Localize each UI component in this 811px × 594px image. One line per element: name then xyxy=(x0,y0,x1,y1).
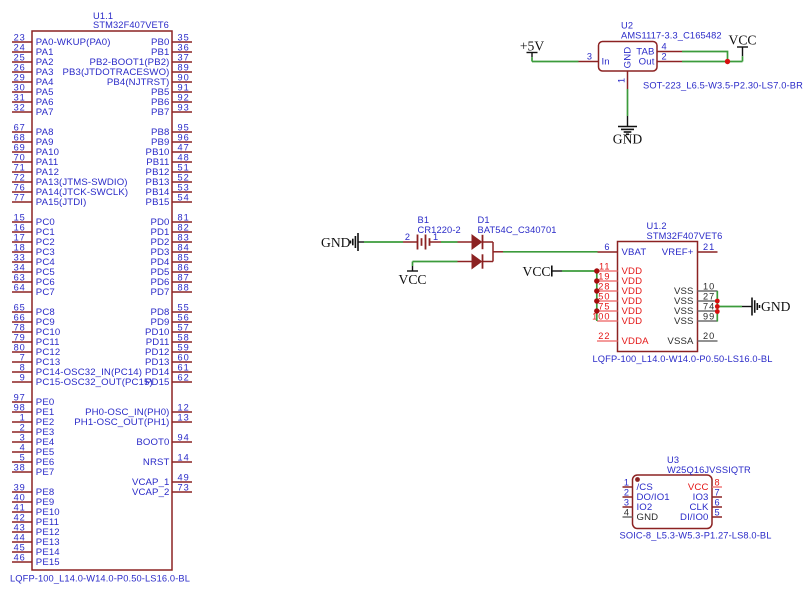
svg-text:52: 52 xyxy=(178,173,190,183)
svg-text:5: 5 xyxy=(20,453,26,463)
svg-text:23: 23 xyxy=(14,33,26,43)
svg-text:DI/IO0: DI/IO0 xyxy=(680,512,708,523)
svg-text:76: 76 xyxy=(14,183,26,193)
svg-text:30: 30 xyxy=(14,83,26,93)
svg-text:93: 93 xyxy=(178,103,190,113)
U1.1 pin 80 PC12 xyxy=(12,343,60,358)
U3 pin 3 IO2 xyxy=(623,498,653,513)
U1.1 pin 8 PC14-OSC32_IN(PC14) xyxy=(12,363,142,378)
U1.1 pin 38 PE7 xyxy=(12,463,54,478)
U1.1 pin 47 PB10 xyxy=(146,143,192,158)
ground GND flag right of U1.2 xyxy=(742,298,791,316)
svg-text:PE15: PE15 xyxy=(36,557,60,568)
svg-text:32: 32 xyxy=(14,103,26,113)
svg-text:24: 24 xyxy=(14,43,26,53)
svg-text:VCC: VCC xyxy=(523,264,551,279)
U1.1 pin 79 PC11 xyxy=(12,333,60,348)
svg-text:13: 13 xyxy=(178,413,190,423)
U1.1 pin 15 PC0 xyxy=(12,213,55,228)
svg-text:20: 20 xyxy=(703,331,715,341)
IC U1.2 body (STM32F407VET6 power pins symbol) xyxy=(618,242,698,352)
U1.1 pin 23 PA0-WKUP(PA0) xyxy=(12,33,111,48)
svg-text:97: 97 xyxy=(14,393,26,403)
svg-text:PD15: PD15 xyxy=(145,377,169,388)
svg-text:PE7: PE7 xyxy=(36,467,55,478)
U1.1 pin 55 PD8 xyxy=(150,303,192,318)
svg-text:35: 35 xyxy=(178,33,190,43)
wire VCC flag to D1 lower anode xyxy=(413,261,458,263)
svg-text:53: 53 xyxy=(178,183,190,193)
U1.1 pin 12 PH0-OSC_IN(PH0) xyxy=(85,403,192,418)
svg-text:72: 72 xyxy=(14,173,26,183)
svg-text:75: 75 xyxy=(598,302,610,312)
svg-text:39: 39 xyxy=(14,483,26,493)
U1.1 pin 4 PE5 xyxy=(12,443,54,458)
svg-text:84: 84 xyxy=(178,243,190,253)
U1.1 pin 59 PD12 xyxy=(145,343,192,358)
svg-text:7: 7 xyxy=(715,488,721,498)
svg-text:100: 100 xyxy=(592,312,610,322)
svg-text:4: 4 xyxy=(662,42,668,52)
U3 pin 1 /CS xyxy=(623,478,653,493)
U1.1 pin 87 PD6 xyxy=(150,273,192,288)
junction at U2 output VCC node xyxy=(725,59,730,64)
svg-text:PD7: PD7 xyxy=(150,287,169,298)
svg-text:59: 59 xyxy=(178,343,190,353)
svg-text:25: 25 xyxy=(14,53,26,63)
U1.2 pin 20 VSSA xyxy=(667,331,717,347)
U1.1 pin 89 PB3(JTDOTRACESWO) xyxy=(62,63,192,78)
svg-text:31: 31 xyxy=(14,93,26,103)
svg-text:SOT-223_L6.5-W3.5-P2.30-LS7.0-: SOT-223_L6.5-W3.5-P2.30-LS7.0-BR xyxy=(643,81,803,91)
U1.1 pin 48 PB11 xyxy=(146,153,192,168)
diode D1 BAT54C dual schottky xyxy=(458,235,504,269)
svg-text:3: 3 xyxy=(587,52,593,62)
svg-text:PA7: PA7 xyxy=(36,107,54,118)
U1.1 pin 96 PB9 xyxy=(151,133,192,148)
power flag VCC at U1.2 VDD xyxy=(523,264,562,279)
svg-text:6: 6 xyxy=(604,242,610,252)
wire +5V flag stub (vertical) xyxy=(531,57,533,61)
U1.2 pin 99 VSS xyxy=(674,312,718,327)
svg-text:PB7: PB7 xyxy=(151,107,170,118)
svg-text:1: 1 xyxy=(624,478,630,488)
svg-text:65: 65 xyxy=(14,303,26,313)
wire VCC flag stub (vertical) xyxy=(742,56,744,61)
U1.1 pin 45 PE14 xyxy=(12,543,60,558)
U1.1 pin 25 PA2 xyxy=(12,53,54,68)
wire U2 Out to VCC flag xyxy=(682,61,743,63)
U1.2 pin 22 VDDA xyxy=(597,331,649,347)
svg-text:57: 57 xyxy=(178,323,190,333)
svg-text:4: 4 xyxy=(624,508,630,518)
U1.1 pin 95 PB8 xyxy=(151,123,192,138)
svg-text:45: 45 xyxy=(14,543,26,553)
junction VSS bus y301 xyxy=(715,299,720,304)
svg-text:VSSA: VSSA xyxy=(667,336,694,347)
svg-text:95: 95 xyxy=(178,123,190,133)
svg-text:82: 82 xyxy=(178,223,190,233)
svg-text:+5V: +5V xyxy=(520,39,544,54)
U1.2 pin 28 VDD xyxy=(597,282,642,297)
svg-text:74: 74 xyxy=(703,302,715,312)
junction VSS bus y311.5 xyxy=(715,309,720,314)
svg-text:STM32F407VET6: STM32F407VET6 xyxy=(647,231,723,241)
svg-text:GND: GND xyxy=(637,512,659,523)
U1.1 pin 31 PA6 xyxy=(12,93,54,108)
svg-text:4: 4 xyxy=(20,443,26,453)
svg-text:GND: GND xyxy=(321,235,351,250)
svg-text:41: 41 xyxy=(14,503,26,513)
svg-text:15: 15 xyxy=(14,213,26,223)
svg-text:PB15: PB15 xyxy=(146,197,170,208)
svg-text:81: 81 xyxy=(178,213,190,223)
wire VCC flag to VDD bus xyxy=(562,270,597,272)
U1.1 pin 53 PB14 xyxy=(146,183,192,198)
svg-text:79: 79 xyxy=(14,333,26,343)
U3 pin 7 IO3 xyxy=(693,488,722,503)
svg-text:PC7: PC7 xyxy=(36,287,55,298)
U1.1 pin 30 PA5 xyxy=(12,83,54,98)
svg-text:BOOT0: BOOT0 xyxy=(136,437,169,448)
svg-text:8: 8 xyxy=(715,478,721,488)
svg-text:B1: B1 xyxy=(418,215,430,225)
U1.2 pin 6 VBAT xyxy=(598,242,647,258)
wire VSS bus to GND flag xyxy=(717,306,742,308)
U2 pin 2 Out xyxy=(639,52,682,68)
U1.1 pin 18 PC3 xyxy=(12,243,55,258)
U1.1 pin 40 PE9 xyxy=(12,493,54,508)
svg-text:91: 91 xyxy=(178,83,190,93)
svg-text:99: 99 xyxy=(703,312,715,322)
junction VDD bus y311 xyxy=(594,308,599,313)
svg-text:40: 40 xyxy=(14,493,26,503)
U1.1 pin 37 PB2-BOOT1(PB2) xyxy=(89,53,192,68)
U1.2 pin 21 VREF+ xyxy=(662,242,718,258)
svg-text:2: 2 xyxy=(20,423,26,433)
U1.1 pin 7 PC13 xyxy=(12,353,60,368)
svg-text:49: 49 xyxy=(178,473,190,483)
svg-text:21: 21 xyxy=(703,242,715,252)
svg-text:PH1-OSC_OUT(PH1): PH1-OSC_OUT(PH1) xyxy=(74,417,169,428)
U1.1 pin 67 PA8 xyxy=(12,123,54,138)
U1.2 pin 11 VDD xyxy=(597,262,642,277)
U1.1 pin 64 PC7 xyxy=(12,283,55,298)
svg-text:46: 46 xyxy=(14,553,26,563)
svg-text:92: 92 xyxy=(178,93,190,103)
svg-text:89: 89 xyxy=(178,63,190,73)
svg-text:44: 44 xyxy=(14,533,26,543)
svg-text:63: 63 xyxy=(14,273,26,283)
svg-text:AMS1117-3.3_C165482: AMS1117-3.3_C165482 xyxy=(621,31,722,41)
svg-text:LQFP-100_L14.0-W14.0-P0.50-LS1: LQFP-100_L14.0-W14.0-P0.50-LS16.0-BL xyxy=(593,354,773,364)
U1.1 pin 77 PA15(JTDI) xyxy=(12,193,86,208)
svg-text:73: 73 xyxy=(178,483,190,493)
U1.1 pin 42 PE11 xyxy=(12,513,59,528)
svg-text:38: 38 xyxy=(14,463,26,473)
svg-text:W25Q16JVSSIQTR: W25Q16JVSSIQTR xyxy=(667,465,751,475)
U1.1 pin 1 PE2 xyxy=(12,413,54,428)
svg-text:19: 19 xyxy=(598,272,610,282)
power flag +5V xyxy=(520,39,544,58)
svg-text:In: In xyxy=(602,56,610,67)
IC U3 body (W25Q16JVSSIQTR spi flash) xyxy=(633,475,713,529)
svg-text:2: 2 xyxy=(662,52,668,62)
svg-text:2: 2 xyxy=(405,232,411,242)
wire VSS vertical bus xyxy=(716,291,718,322)
svg-text:55: 55 xyxy=(178,303,190,313)
U1.1 pin 14 NRST xyxy=(143,453,192,468)
svg-text:1: 1 xyxy=(617,77,627,83)
svg-text:GND: GND xyxy=(623,47,634,69)
svg-text:64: 64 xyxy=(14,283,26,293)
U1.1 pin 81 PD0 xyxy=(150,213,192,228)
U1.1 pin 16 PC1 xyxy=(12,223,55,238)
svg-text:U3: U3 xyxy=(667,455,679,465)
U1.1 pin 35 PB0 xyxy=(151,33,192,48)
U1.1 pin 61 PD14 xyxy=(145,363,192,378)
U1.1 pin 13 PH1-OSC_OUT(PH1) xyxy=(74,413,192,428)
U1.1 pin 65 PC8 xyxy=(12,303,55,318)
svg-text:14: 14 xyxy=(178,453,190,463)
svg-text:VCC: VCC xyxy=(729,33,757,48)
svg-text:28: 28 xyxy=(598,282,610,292)
svg-text:VDD: VDD xyxy=(622,316,643,327)
svg-text:83: 83 xyxy=(178,233,190,243)
svg-text:56: 56 xyxy=(178,313,190,323)
U1.1 pin 85 PD4 xyxy=(150,253,192,268)
U1.1 pin 46 PE15 xyxy=(12,553,60,568)
svg-text:D1: D1 xyxy=(478,215,490,225)
U1.1 pin 70 PA11 xyxy=(12,153,58,168)
svg-text:11: 11 xyxy=(599,262,611,272)
U1.1 pin 54 PB15 xyxy=(146,193,192,208)
svg-text:67: 67 xyxy=(14,123,26,133)
svg-text:12: 12 xyxy=(178,403,190,413)
wire B1 pin1 to D1 anode xyxy=(441,241,458,243)
U1.1 pin 17 PC2 xyxy=(12,233,55,248)
svg-text:LQFP-100_L14.0-W14.0-P0.50-LS1: LQFP-100_L14.0-W14.0-P0.50-LS16.0-BL xyxy=(10,574,190,584)
svg-text:51: 51 xyxy=(178,163,190,173)
U1.1 pin 98 PE1 xyxy=(12,403,54,418)
svg-text:71: 71 xyxy=(14,163,26,173)
svg-text:98: 98 xyxy=(14,403,26,413)
svg-text:PA15(JTDI): PA15(JTDI) xyxy=(36,197,87,208)
U3 pin 4 GND xyxy=(623,508,659,523)
svg-text:PC15-OSC32_OUT(PC15): PC15-OSC32_OUT(PC15) xyxy=(36,377,153,388)
U3 pin 2 DO/IO1 xyxy=(623,488,670,503)
svg-text:STM32F407VET6: STM32F407VET6 xyxy=(93,20,169,30)
svg-text:GND: GND xyxy=(613,132,643,147)
U1.1 pin 44 PE13 xyxy=(12,533,60,548)
U1.1 pin 29 PA4 xyxy=(12,73,54,88)
ground GND below U2 xyxy=(613,116,643,147)
U1.1 pin 83 PD2 xyxy=(150,233,192,248)
svg-text:96: 96 xyxy=(178,133,190,143)
voltage regulator U2 body (AMS1117-3.3) xyxy=(599,42,658,72)
U1.1 pin 9 PC15-OSC32_OUT(PC15) xyxy=(12,373,153,388)
U1.1 pin 33 PC4 xyxy=(12,253,55,268)
svg-text:50: 50 xyxy=(598,292,610,302)
svg-text:42: 42 xyxy=(14,513,26,523)
svg-text:36: 36 xyxy=(178,43,190,53)
U1.1 pin 34 PC5 xyxy=(12,263,55,278)
svg-text:BAT54C_C340701: BAT54C_C340701 xyxy=(478,225,557,235)
svg-text:27: 27 xyxy=(703,292,715,302)
svg-text:SOIC-8_L5.3-W5.3-P1.27-LS8.0-B: SOIC-8_L5.3-W5.3-P1.27-LS8.0-BL xyxy=(620,531,772,541)
svg-text:43: 43 xyxy=(14,523,26,533)
U2 pin 3 In xyxy=(579,52,610,68)
svg-text:78: 78 xyxy=(14,323,26,333)
svg-text:1: 1 xyxy=(20,413,26,423)
svg-text:VBAT: VBAT xyxy=(622,247,647,258)
junction VSS bus y306.5 xyxy=(715,304,720,309)
svg-text:77: 77 xyxy=(14,193,26,203)
U1.1 pin 86 PD5 xyxy=(150,263,192,278)
svg-text:9: 9 xyxy=(20,373,26,383)
svg-text:VCAP_2: VCAP_2 xyxy=(132,487,170,498)
svg-text:61: 61 xyxy=(178,363,190,373)
U1.1 pin 76 PA14(JTCK-SWCLK) xyxy=(12,183,128,198)
svg-text:70: 70 xyxy=(14,153,26,163)
svg-text:GND: GND xyxy=(761,299,791,314)
svg-text:3: 3 xyxy=(624,498,630,508)
svg-text:VDDA: VDDA xyxy=(622,336,650,347)
svg-text:88: 88 xyxy=(178,283,190,293)
svg-text:U2: U2 xyxy=(621,21,633,31)
U1.1 pin 24 PA1 xyxy=(12,43,54,58)
svg-text:66: 66 xyxy=(14,313,26,323)
svg-text:22: 22 xyxy=(598,331,610,341)
U1.1 pin 71 PA12 xyxy=(12,163,59,178)
U1.1 pin 88 PD7 xyxy=(150,283,192,298)
power flag VCC (top right) xyxy=(729,33,757,57)
U1.1 pin 66 PC9 xyxy=(12,313,55,328)
U1.1 pin 72 PA13(JTMS-SWDIO) xyxy=(12,173,128,188)
svg-text:16: 16 xyxy=(14,223,26,233)
svg-text:86: 86 xyxy=(178,263,190,273)
svg-text:34: 34 xyxy=(14,263,26,273)
svg-text:5: 5 xyxy=(715,508,721,518)
U2 pin 4 TAB xyxy=(636,42,682,58)
wire U2 TAB to VCC rail (with corner) xyxy=(682,52,728,62)
IC U1.1 STM32F407VET6 body xyxy=(32,31,172,570)
wire +5V to U2 pin3 In xyxy=(532,61,579,63)
svg-text:87: 87 xyxy=(178,273,190,283)
U1.2 pin 50 VDD xyxy=(597,292,642,307)
U1.1 pin 52 PB13 xyxy=(146,173,192,188)
U1.1 pin 84 PD3 xyxy=(150,243,192,258)
U1.2 pin 75 VDD xyxy=(597,302,642,317)
svg-text:54: 54 xyxy=(178,193,190,203)
svg-text:2: 2 xyxy=(624,488,630,498)
wire VDD vertical bus xyxy=(596,271,598,321)
svg-text:26: 26 xyxy=(14,63,26,73)
svg-text:69: 69 xyxy=(14,143,26,153)
U1.1 pin 57 PD10 xyxy=(145,323,192,338)
svg-text:85: 85 xyxy=(178,253,190,263)
svg-text:U1.2: U1.2 xyxy=(647,221,667,231)
U1.1 pin 94 BOOT0 xyxy=(136,433,192,448)
U1.1 pin 78 PC10 xyxy=(12,323,60,338)
wire D1 common cathode to U1.2 VBAT xyxy=(503,251,598,253)
U1.2 pin 74 VSS xyxy=(674,302,718,317)
U1.1 pin 63 PC6 xyxy=(12,273,55,288)
U1.2 pin 27 VSS xyxy=(674,292,718,307)
wire U2 pin1 to GND xyxy=(627,89,629,116)
svg-text:80: 80 xyxy=(14,343,26,353)
power flag VCC below battery xyxy=(399,266,427,287)
U1.1 pin 97 PE0 xyxy=(12,393,54,408)
svg-text:NRST: NRST xyxy=(143,457,170,468)
junction VDD bus y281 xyxy=(594,278,599,283)
U1.2 pin 10 VSS xyxy=(674,282,718,297)
ground GND flag left of B1 xyxy=(321,233,364,251)
U1.1 pin 56 PD9 xyxy=(150,313,192,328)
U3 pin 8 VCC xyxy=(688,478,722,493)
U1.1 pin 82 PD1 xyxy=(150,223,192,238)
U1.1 pin 90 PB4(NJTRST) xyxy=(107,73,192,88)
U1.1 pin 5 PE6 xyxy=(12,453,54,468)
wire VCC flag stub (vertical) xyxy=(412,262,414,267)
svg-text:62: 62 xyxy=(178,373,190,383)
U1.1 pin 60 PD13 xyxy=(145,353,192,368)
svg-text:37: 37 xyxy=(178,53,190,63)
svg-text:Out: Out xyxy=(639,56,655,67)
junction VDD bus y271 xyxy=(594,268,599,273)
svg-text:7: 7 xyxy=(20,353,26,363)
svg-text:68: 68 xyxy=(14,133,26,143)
svg-text:90: 90 xyxy=(178,73,190,83)
wire GND flag to B1 pin2 xyxy=(364,241,403,243)
svg-text:VSS: VSS xyxy=(674,316,694,327)
svg-text:8: 8 xyxy=(20,363,26,373)
U1.1 pin 69 PA10 xyxy=(12,143,59,158)
junction VDD bus y291 xyxy=(594,288,599,293)
U2 pin 1 GND xyxy=(617,47,634,89)
junction VDD bus y301 xyxy=(594,298,599,303)
svg-text:VREF+: VREF+ xyxy=(662,247,694,258)
U1.1 pin 73 VCAP_2 xyxy=(132,483,192,498)
svg-text:48: 48 xyxy=(178,153,190,163)
svg-text:94: 94 xyxy=(178,433,190,443)
svg-text:29: 29 xyxy=(14,73,26,83)
svg-text:33: 33 xyxy=(14,253,26,263)
U1.2 pin 19 VDD xyxy=(597,272,642,287)
U1.1 pin 93 PB7 xyxy=(151,103,192,118)
svg-text:60: 60 xyxy=(178,353,190,363)
svg-text:17: 17 xyxy=(14,233,26,243)
svg-text:47: 47 xyxy=(178,143,190,153)
U1.1 pin 91 PB5 xyxy=(151,83,192,98)
svg-text:18: 18 xyxy=(14,243,26,253)
U3 pin 5 DI/IO0 xyxy=(680,508,722,523)
U1.1 pin 58 PD11 xyxy=(146,333,192,348)
U1.1 pin 43 PE12 xyxy=(12,523,60,538)
U1.2 pin 100 VDD xyxy=(592,312,642,327)
svg-text:CR1220-2: CR1220-2 xyxy=(418,225,461,235)
U1.1 pin 2 PE3 xyxy=(12,423,54,438)
svg-text:VCC: VCC xyxy=(399,272,427,287)
U1.1 pin 3 PE4 xyxy=(12,433,55,448)
U1.1 pin 92 PB6 xyxy=(151,93,192,108)
U1.1 pin 32 PA7 xyxy=(12,103,54,118)
U3 pin 6 CLK xyxy=(689,498,722,513)
svg-text:58: 58 xyxy=(178,333,190,343)
battery B1 CR1220-2 xyxy=(403,232,441,249)
svg-text:3: 3 xyxy=(20,433,26,443)
U1.1 pin 36 PB1 xyxy=(151,43,192,58)
